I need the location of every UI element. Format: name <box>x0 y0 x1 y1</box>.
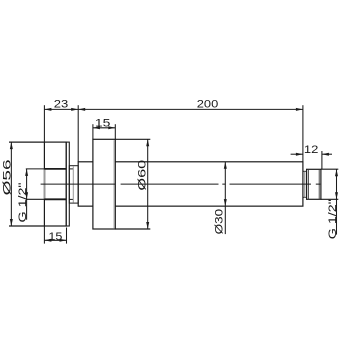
svg-text:G 1/2": G 1/2" <box>17 182 29 222</box>
dim 12 <box>291 151 332 169</box>
thread runout gray edge <box>44 169 46 199</box>
tip chamfer right <box>318 169 320 199</box>
arrowheads <box>10 108 338 242</box>
dim 23 <box>44 105 78 162</box>
O56 arrows <box>10 142 13 149</box>
tip thread G1/2 <box>307 169 321 199</box>
svg-text:G 1/2": G 1/2" <box>327 199 339 239</box>
svg-text:Ø56: Ø56 <box>1 159 13 195</box>
svg-text:15: 15 <box>95 117 111 129</box>
O60 arrows <box>146 139 149 146</box>
15 top arrows <box>93 126 100 129</box>
G1/2 right arrows <box>335 169 338 176</box>
svg-text:12: 12 <box>304 144 319 156</box>
23 arrows <box>44 108 51 111</box>
escutcheon block O56 <box>44 142 66 226</box>
thread line top G1/2 <box>44 168 66 170</box>
ring shading <box>113 140 115 228</box>
G1/2 left arrows <box>25 169 28 176</box>
200 arrows <box>78 108 85 111</box>
neck shading line <box>72 166 74 202</box>
svg-text:15: 15 <box>48 231 62 243</box>
dim O56 <box>9 142 44 226</box>
O30 arrows <box>224 162 227 169</box>
flange plate <box>66 142 69 226</box>
dim 200 <box>78 105 303 162</box>
groove line <box>304 171 306 197</box>
tip chamfer left <box>307 169 309 199</box>
dim O60 <box>115 139 150 229</box>
nipple hidden lines <box>69 168 73 170</box>
groove at tip <box>303 170 307 172</box>
tube O30 <box>78 162 303 206</box>
svg-text:Ø30: Ø30 <box>214 209 226 235</box>
svg-text:23: 23 <box>54 99 69 111</box>
dim 15 bottom <box>44 226 66 244</box>
dim O30 <box>224 162 226 234</box>
svg-text:Ø60: Ø60 <box>136 160 148 191</box>
neck <box>69 166 78 203</box>
svg-text:200: 200 <box>197 99 219 111</box>
thread line bottom G1/2 <box>44 198 66 200</box>
centerline <box>41 183 321 185</box>
dim G1/2 left <box>26 169 45 220</box>
dim 15 top <box>93 124 115 139</box>
12 arrows (outside) <box>296 153 303 156</box>
cylinder ring O60 <box>93 139 115 229</box>
dim G1/2 right <box>321 169 338 234</box>
15 bottom arrows <box>44 239 51 242</box>
